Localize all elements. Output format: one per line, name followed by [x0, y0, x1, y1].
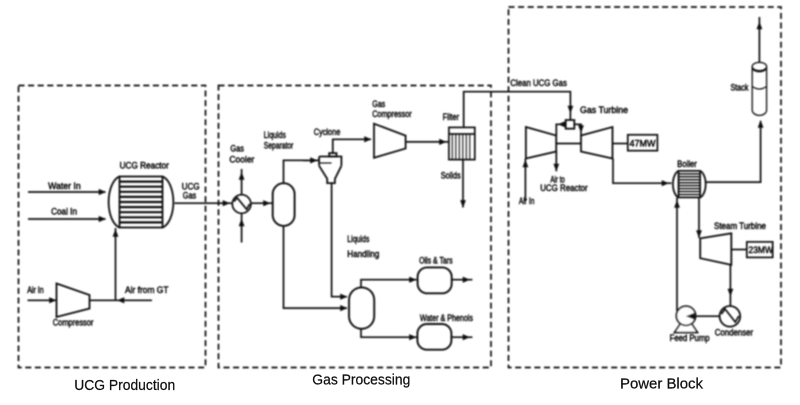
svg-text:Oils & Tars: Oils & Tars: [419, 256, 453, 266]
svg-text:Gas: Gas: [230, 144, 244, 154]
svg-text:Compressor: Compressor: [53, 317, 94, 327]
svg-text:UCG Reactor: UCG Reactor: [540, 183, 588, 193]
svg-text:Air In: Air In: [519, 196, 535, 206]
svg-text:UCG Production: UCG Production: [74, 378, 175, 394]
svg-text:Air In: Air In: [27, 285, 44, 295]
svg-text:Water In: Water In: [48, 181, 81, 191]
svg-text:Cooler: Cooler: [229, 155, 254, 165]
svg-text:Gas Turbine: Gas Turbine: [580, 105, 628, 115]
svg-text:Compressor: Compressor: [372, 109, 412, 119]
svg-text:Stack: Stack: [731, 83, 749, 93]
svg-text:Filter: Filter: [443, 112, 460, 122]
svg-text:Air from GT: Air from GT: [125, 285, 169, 295]
svg-text:Feed Pump: Feed Pump: [670, 333, 710, 343]
svg-text:47MW: 47MW: [630, 138, 657, 148]
svg-text:Liquids: Liquids: [264, 130, 286, 140]
svg-text:Water & Phenols: Water & Phenols: [420, 313, 473, 323]
svg-text:Gas: Gas: [372, 99, 385, 109]
svg-text:Condenser: Condenser: [715, 327, 754, 337]
svg-text:Boiler: Boiler: [677, 159, 697, 169]
svg-text:UCG Reactor: UCG Reactor: [120, 160, 169, 170]
svg-text:Steam Turbine: Steam Turbine: [714, 221, 766, 231]
svg-text:Coal In: Coal In: [51, 207, 77, 217]
svg-text:Solids: Solids: [441, 171, 461, 181]
svg-text:Gas: Gas: [183, 190, 197, 200]
svg-text:Separator: Separator: [264, 140, 294, 150]
svg-text:Gas Processing: Gas Processing: [312, 373, 410, 389]
svg-text:Cyclone: Cyclone: [314, 127, 341, 137]
svg-text:23MW: 23MW: [749, 245, 774, 255]
svg-text:Liquids: Liquids: [347, 234, 369, 244]
svg-text:Clean UCG Gas: Clean UCG Gas: [510, 78, 567, 88]
svg-text:Power Block: Power Block: [620, 377, 704, 393]
svg-text:Handling: Handling: [347, 249, 379, 259]
